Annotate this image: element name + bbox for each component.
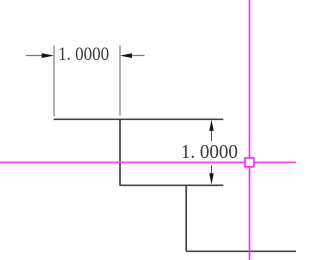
arrowhead down (vertical dim): [209, 173, 213, 185]
svg-text:1. 0000: 1. 0000: [58, 44, 109, 65]
dimension tail right: [131, 55, 145, 57]
extension line right of horizontal dimension: [119, 46, 121, 116]
dim line stub below text: [211, 165, 213, 174]
wire step tread 2 (object line + bottom extension of vertical dim): [120, 184, 224, 186]
dimension text 1.0000 vertical: [181, 141, 238, 163]
arrowhead left (points right): [42, 53, 54, 58]
arrowhead up (vertical dim): [209, 120, 213, 131]
extension line left of horizontal dimension: [53, 46, 55, 117]
arrowhead right (points left): [120, 53, 132, 58]
wire step bottom tread 3: [186, 250, 296, 252]
crosshair horizontal line left: [0, 161, 245, 163]
crosshair vertical line lower: [249, 167, 251, 260]
pickbox square: [245, 158, 254, 167]
dimension tail left: [26, 55, 43, 57]
svg-text:1. 0000: 1. 0000: [181, 141, 238, 163]
dimension text 1.0000 horizontal: [58, 44, 109, 65]
dim line stub above text: [211, 131, 213, 141]
crosshair horizontal line right: [254, 161, 296, 163]
wire step riser 1: [119, 119, 121, 185]
wire step riser 2: [185, 185, 187, 251]
crosshair vertical line upper: [249, 0, 251, 157]
wire step tread 1 (object line + top extension of vertical dim): [54, 118, 224, 120]
